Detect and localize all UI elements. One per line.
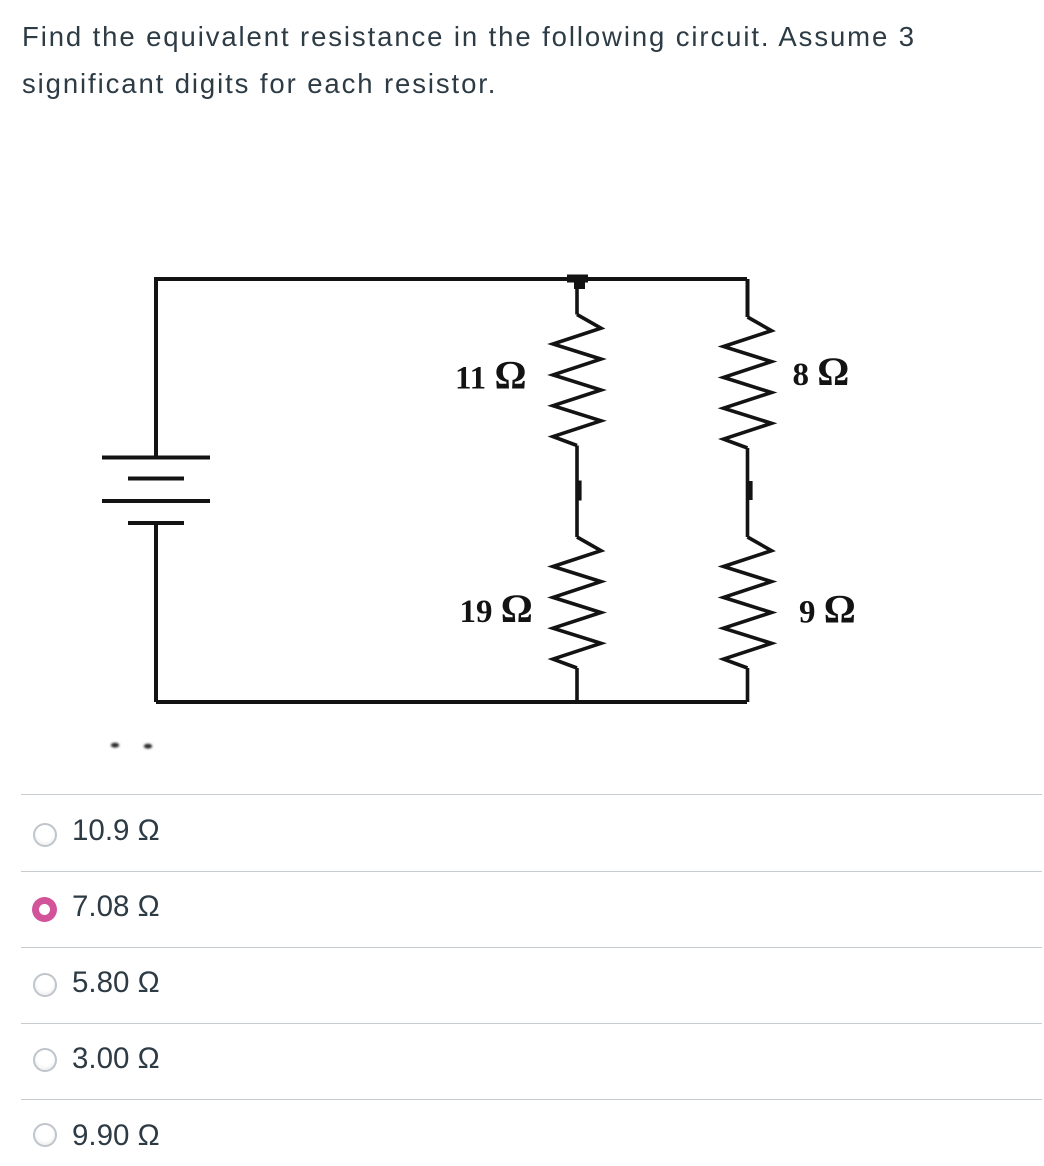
resistor R1 11ohm [553,315,601,446]
wire left lower [154,523,158,702]
wire left [154,277,158,457]
divider [21,1023,1042,1024]
resistor R2 19ohm [553,537,601,668]
wire bottom [156,700,747,704]
divider [21,1099,1042,1100]
divider [21,947,1042,948]
wire right branch upper [746,279,750,317]
option E radio [33,1123,57,1147]
option C label 5.80 [72,968,160,998]
option E label 9.90 [72,1121,160,1151]
option A radio [33,823,57,847]
option B label 7.08 [72,892,160,922]
circuit schematic [0,0,1044,770]
svg-text:9 Ω: 9 Ω [799,587,856,632]
node junction top [567,275,588,283]
divider [21,871,1042,872]
battery B1 [102,458,210,524]
resistor R3 8ohm [724,317,772,448]
svg-text:8 Ω: 8 Ω [793,349,850,394]
wire middle branch mid [575,446,579,538]
option C radio [33,973,57,997]
resistor R4 9ohm [724,537,772,668]
node tick middle [577,481,582,501]
option D label 3.00 [72,1044,160,1074]
svg-text:11 Ω: 11 Ω [455,353,526,398]
figure label (a) cropped [111,743,152,749]
wire right branch mid [746,448,750,537]
question text [22,13,916,107]
divider [21,794,1042,795]
node tick right [748,481,753,500]
option A label 10.9 [72,816,160,846]
wire right branch lower [746,668,750,702]
option B radio selected [32,897,57,922]
wire middle branch upper [575,283,579,315]
wire middle branch lower [575,668,579,702]
wire top [156,277,747,281]
option D radio [33,1048,57,1072]
svg-text:19 Ω: 19 Ω [460,586,533,631]
